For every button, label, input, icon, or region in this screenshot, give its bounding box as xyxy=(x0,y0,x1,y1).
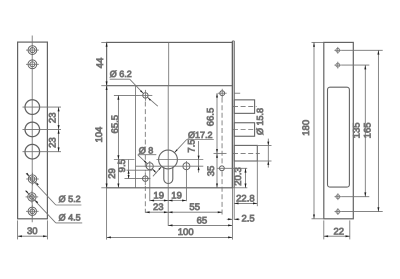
euro cylinder xyxy=(159,150,178,184)
svg-text:Ø 15.8: Ø 15.8 xyxy=(255,108,265,135)
svg-text:19: 19 xyxy=(153,190,164,201)
svg-text:2.5: 2.5 xyxy=(242,213,255,224)
main body inner top line xyxy=(107,85,233,87)
svg-text:Ø 8: Ø 8 xyxy=(139,145,154,155)
dim 9.5 xyxy=(128,160,130,179)
dim 104 xyxy=(106,86,108,188)
dim 100 xyxy=(107,236,233,238)
hole 6.2 xyxy=(139,90,152,101)
svg-text:20.3: 20.3 xyxy=(233,167,244,186)
svg-text:135: 135 xyxy=(352,122,363,138)
svg-text:165: 165 xyxy=(363,122,374,138)
lower small hole xyxy=(143,172,149,185)
dim 165 xyxy=(377,50,379,211)
extension tick y170.2 xyxy=(127,169,153,171)
bolt 3 centerline xyxy=(233,152,260,154)
bolt 3 bottom extension xyxy=(257,160,271,162)
dim 180 xyxy=(312,42,324,218)
right plate outline xyxy=(324,42,354,218)
extension line hole 6.2 left xyxy=(114,94,139,96)
svg-text:35: 35 xyxy=(206,166,217,177)
leader diameter 6.2 xyxy=(110,79,158,106)
faceplate hole top xyxy=(218,89,227,98)
faceplate hole bottom xyxy=(220,166,225,171)
vertical line top middle xyxy=(168,42,170,85)
dim 2.5 xyxy=(227,218,240,220)
screw hole top1 xyxy=(26,46,39,55)
dim 20.3 xyxy=(245,168,247,188)
dim 19 left xyxy=(150,200,168,202)
faceplate strip xyxy=(232,41,234,240)
svg-text:180: 180 xyxy=(301,120,312,136)
svg-text:19: 19 xyxy=(171,190,182,201)
svg-text:23: 23 xyxy=(47,113,58,124)
dim 22 right plate xyxy=(324,220,350,239)
extension ticks top left xyxy=(101,42,106,85)
left plate outline xyxy=(18,42,48,219)
dim 35 xyxy=(216,153,218,187)
euro cylinder horizontal tick xyxy=(157,159,204,161)
extension hole top right xyxy=(235,92,241,94)
leader diameter 5.2 xyxy=(26,173,81,205)
inner vertical line xyxy=(135,86,137,188)
leader diameter 4.5 xyxy=(25,191,82,223)
svg-text:29: 29 xyxy=(107,168,118,179)
hole 8 left xyxy=(146,161,153,172)
dim 44 xyxy=(106,42,108,85)
dim 55 xyxy=(168,211,222,213)
dim 65.5 xyxy=(117,95,119,159)
screw hole bottom3 xyxy=(26,205,39,218)
right plate hole 2 xyxy=(334,62,341,69)
dim 23 lower left view xyxy=(58,129,60,151)
dim 19 right xyxy=(168,200,186,202)
dim 7.5 xyxy=(198,141,200,173)
extension line euro center left xyxy=(114,159,135,161)
leader diameter 8 xyxy=(138,155,157,174)
main body outline xyxy=(107,42,233,187)
svg-text:Ø 6.2: Ø 6.2 xyxy=(110,69,132,79)
extension line y178.6 xyxy=(125,178,151,180)
svg-text:22: 22 xyxy=(334,226,345,237)
dim 65 xyxy=(168,224,232,226)
right plate hole 4 xyxy=(335,208,342,215)
large hole C xyxy=(23,144,62,159)
dim 23 bottom xyxy=(145,211,168,213)
euro cylinder vertical line xyxy=(167,86,169,226)
extension line y168.3 right xyxy=(218,167,248,169)
extension lines right plate holes xyxy=(341,50,383,211)
right plate hole 1 xyxy=(334,47,341,54)
screw hole top2 xyxy=(26,60,39,69)
dim 22.8 xyxy=(234,161,257,206)
screw hole bottom2 xyxy=(26,191,39,204)
dim 29 xyxy=(117,160,119,188)
right plate cutout xyxy=(328,87,350,187)
leader diameter 17.2 xyxy=(153,140,214,177)
bolt 2 centerline xyxy=(233,129,257,131)
bolt 2 xyxy=(234,123,254,137)
svg-text:Ø 4.5: Ø 4.5 xyxy=(59,212,81,222)
svg-text:23: 23 xyxy=(153,202,164,213)
svg-text:100: 100 xyxy=(178,227,194,238)
svg-text:65.5: 65.5 xyxy=(110,115,121,133)
hole right of cylinder xyxy=(183,161,190,172)
svg-text:44: 44 xyxy=(95,58,106,69)
svg-text:7.5: 7.5 xyxy=(187,139,198,152)
svg-text:22.8: 22.8 xyxy=(236,193,255,204)
faceplate hole centerline dashdot xyxy=(221,98,223,215)
svg-text:30: 30 xyxy=(27,226,38,237)
right plate hole 3 xyxy=(335,193,342,200)
svg-text:Ø 5.2: Ø 5.2 xyxy=(59,194,81,204)
extension tick y153.4 xyxy=(214,152,227,154)
svg-text:65: 65 xyxy=(197,215,208,226)
svg-text:9.5: 9.5 xyxy=(117,159,128,172)
bolt 1 centerline xyxy=(233,106,257,108)
horizontal centerline through holes xyxy=(136,165,204,167)
large hole B xyxy=(23,122,62,137)
svg-text:55: 55 xyxy=(189,202,200,213)
dim 135 xyxy=(364,65,366,197)
dim 30 left view xyxy=(18,220,48,239)
svg-text:104: 104 xyxy=(94,127,105,143)
dim 66.5 xyxy=(216,93,218,153)
svg-text:Ø17.2: Ø17.2 xyxy=(188,130,213,140)
large hole A xyxy=(23,100,62,115)
screw hole bottom1 xyxy=(26,173,39,186)
centerline dashdot through 6.2 hole xyxy=(144,102,146,213)
left plate vertical centerline xyxy=(31,36,33,223)
dim diameter 15.8 xyxy=(258,139,272,168)
extension lines below body xyxy=(107,170,187,240)
svg-text:66.5: 66.5 xyxy=(206,108,217,127)
svg-text:23: 23 xyxy=(47,137,58,148)
body bottom edge extension xyxy=(101,187,247,189)
bolt 3 xyxy=(234,145,257,161)
dim 23 upper left view xyxy=(58,107,60,129)
bolt 1 xyxy=(234,100,254,114)
